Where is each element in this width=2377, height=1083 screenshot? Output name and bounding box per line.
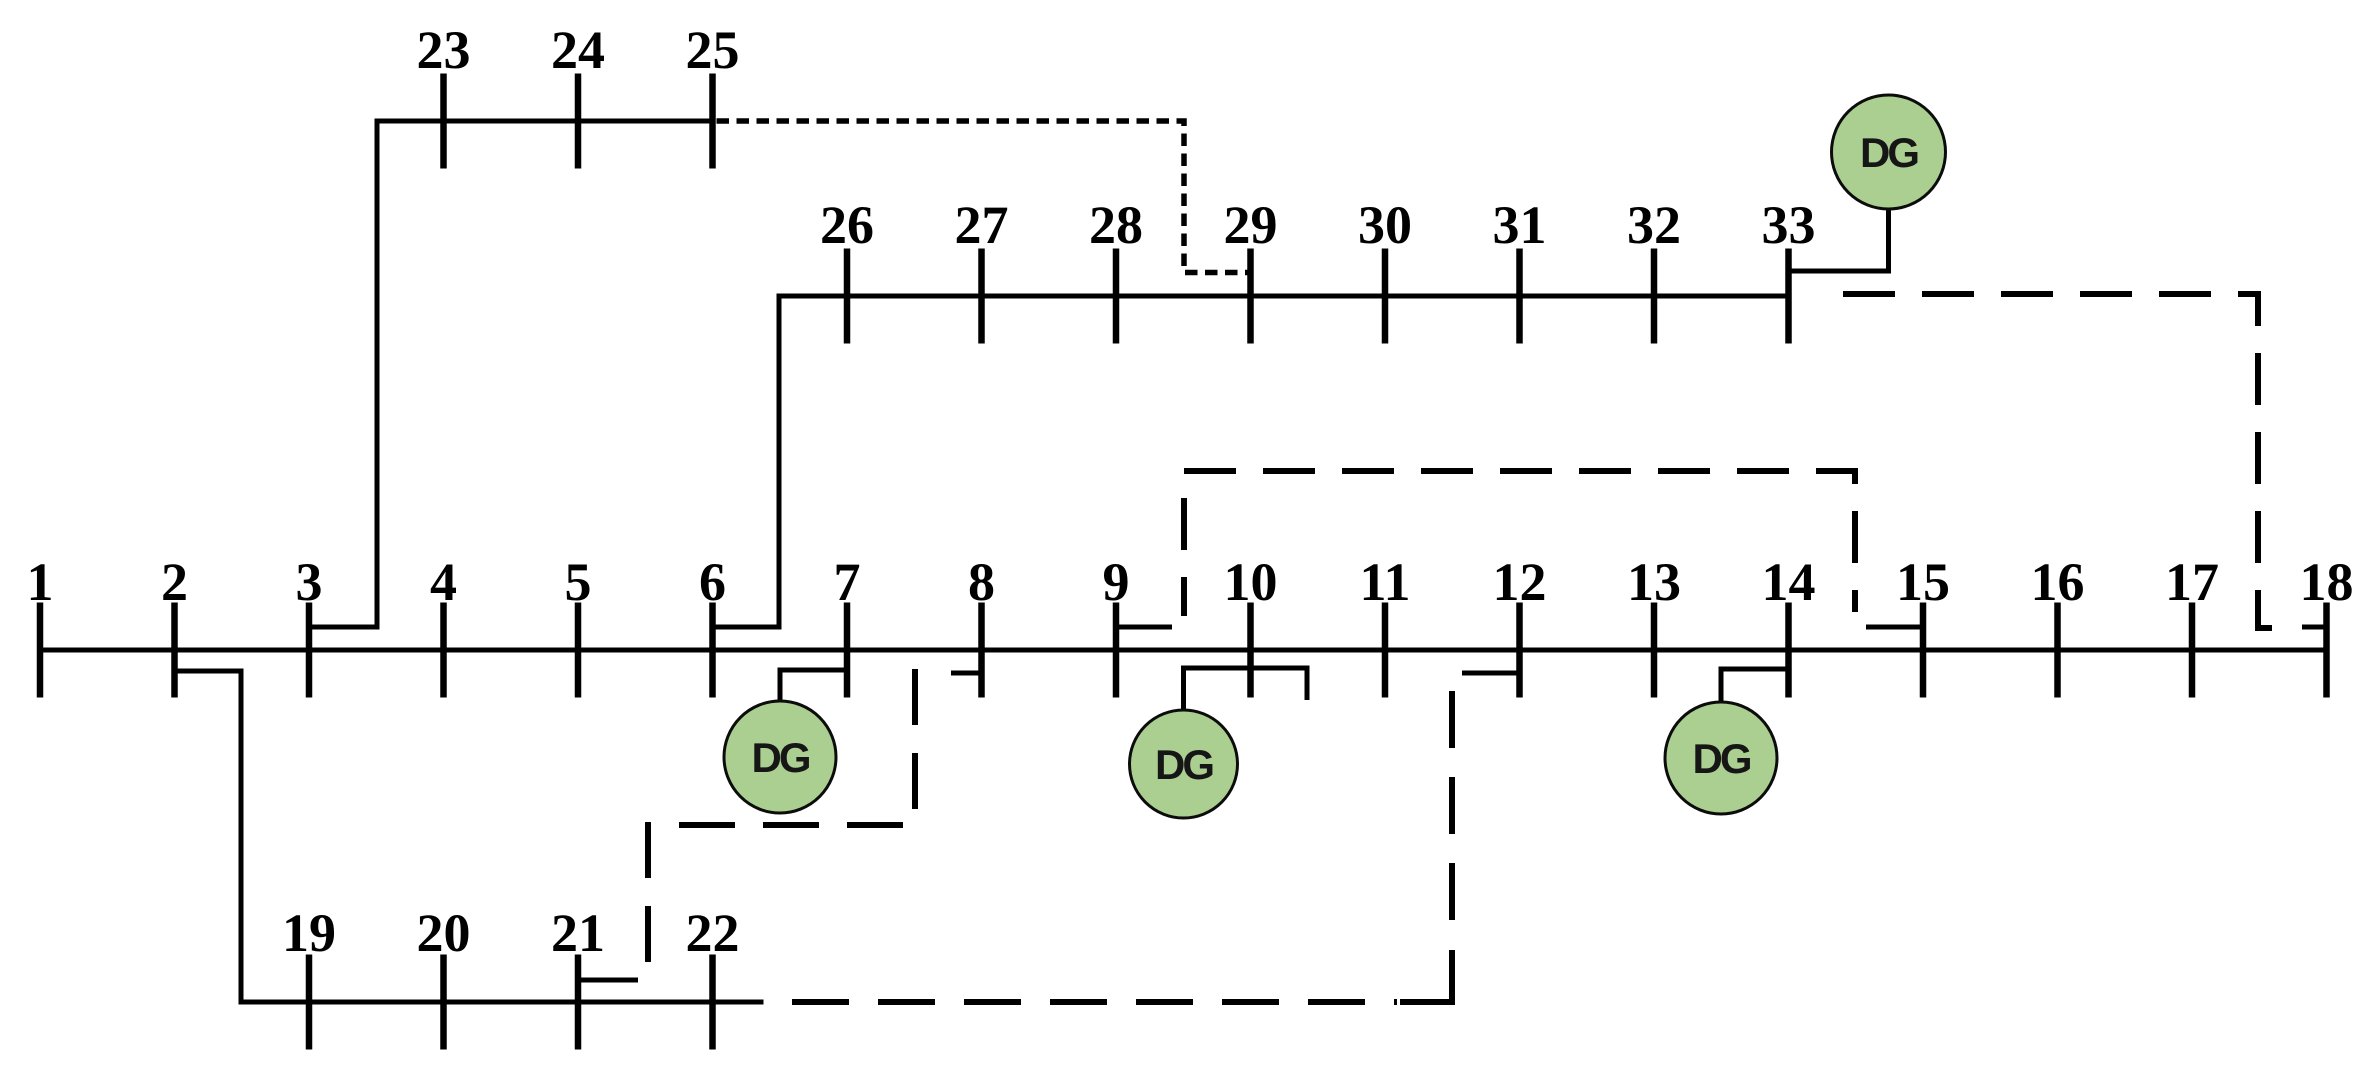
wire: open tie switch 33-18 (dashed)	[1843, 294, 2278, 628]
node bus 14	[1762, 552, 1816, 698]
svg-text:31: 31	[1493, 195, 1547, 255]
node bus 24	[551, 20, 605, 169]
svg-text:27: 27	[955, 195, 1009, 255]
node bus 9	[1103, 552, 1130, 698]
node bus 16	[2031, 552, 2085, 698]
wire: bus 8 stub for tie 8-21	[951, 671, 982, 676]
node bus 19	[282, 903, 336, 1050]
svg-text:7: 7	[834, 552, 861, 612]
node bus 21	[551, 903, 605, 1050]
svg-text:DG: DG	[1860, 129, 1918, 176]
wire: open tie switch 12-22 (dashed horizontal)	[792, 999, 1397, 1005]
wire: bus 18 stub for tie 33-18	[2302, 625, 2327, 630]
svg-text:12: 12	[1493, 552, 1547, 612]
svg-text:16: 16	[2031, 552, 2085, 612]
wire: DG connection at bus 33	[1789, 207, 1889, 271]
node bus 26	[820, 195, 874, 344]
node bus 20	[417, 903, 471, 1050]
node bus 12	[1493, 552, 1547, 698]
wire: open tie switch 9-15 (dashed)	[1184, 471, 1855, 616]
svg-text:11: 11	[1359, 552, 1410, 612]
svg-text:17: 17	[2165, 552, 2219, 612]
node bus 29	[1224, 195, 1278, 344]
svg-text:25: 25	[686, 20, 740, 80]
wire: tie 12-22 corner	[1400, 950, 1452, 1002]
svg-text:24: 24	[551, 20, 605, 80]
node bus 4	[430, 552, 457, 698]
node bus 11	[1359, 552, 1410, 698]
node bus 6	[699, 552, 726, 698]
wire: main feeder bus line 1-18	[37, 648, 2330, 653]
wire: open tie switch 25-29 (dotted)	[717, 121, 1248, 273]
node bus 7	[834, 552, 861, 698]
svg-text:5: 5	[565, 552, 592, 612]
svg-text:20: 20	[417, 903, 471, 963]
node bus 2	[161, 552, 188, 698]
svg-text:DG: DG	[752, 734, 810, 781]
svg-text:28: 28	[1089, 195, 1143, 255]
svg-text:29: 29	[1224, 195, 1278, 255]
svg-text:32: 32	[1627, 195, 1681, 255]
wire: bus 15 stub for tie 9-15	[1866, 625, 1923, 630]
node bus 31	[1493, 195, 1547, 344]
node bus 22	[686, 903, 740, 1050]
wire: bus 21 stub for tie 8-21	[578, 978, 638, 983]
svg-text:13: 13	[1627, 552, 1681, 612]
svg-text:1: 1	[27, 552, 54, 612]
wire: DG connection bar at bus 10	[1184, 668, 1308, 713]
node bus 27	[955, 195, 1009, 344]
svg-text:33: 33	[1762, 195, 1816, 255]
svg-text:4: 4	[430, 552, 457, 612]
wire: DG connection at bus 14	[1721, 669, 1789, 705]
svg-text:30: 30	[1358, 195, 1412, 255]
svg-text:18: 18	[2300, 552, 2354, 612]
node bus 25	[686, 20, 740, 169]
node bus 15	[1896, 552, 1950, 698]
svg-text:14: 14	[1762, 552, 1816, 612]
node bus 17	[2165, 552, 2219, 698]
svg-text:23: 23	[417, 20, 471, 80]
node bus 8	[968, 552, 995, 698]
wire: open tie switch 12-22 (dashed vertical)	[1449, 691, 1455, 948]
DG generator at bus 33	[1832, 95, 1946, 209]
svg-text:21: 21	[551, 903, 605, 963]
node bus 1	[27, 552, 54, 698]
svg-text:DG: DG	[1693, 735, 1751, 782]
node bus 32	[1627, 195, 1681, 344]
DG generator at bus 7	[724, 701, 836, 813]
svg-text:10: 10	[1224, 552, 1278, 612]
svg-text:6: 6	[699, 552, 726, 612]
svg-text:2: 2	[161, 552, 188, 612]
wire: bus 9 stub for tie 9-15	[1116, 625, 1172, 630]
node bus 33	[1762, 195, 1816, 344]
node bus 13	[1627, 552, 1681, 698]
node bus 10	[1224, 552, 1278, 698]
wire: bus 12 stub for tie 12-22	[1462, 671, 1520, 676]
svg-text:DG: DG	[1155, 741, 1213, 788]
node bus 3	[296, 552, 323, 698]
DG generator at bus 14	[1665, 702, 1777, 814]
node bus 28	[1089, 195, 1143, 344]
svg-text:9: 9	[1103, 552, 1130, 612]
svg-text:15: 15	[1896, 552, 1950, 612]
node bus 23	[417, 20, 471, 169]
wire: DG connection at bus 7	[780, 670, 847, 706]
svg-text:22: 22	[686, 903, 740, 963]
DG generator at bus 10	[1130, 710, 1238, 818]
wire: branch from bus 6 up to bus 26	[713, 296, 1789, 627]
node bus 18	[2300, 552, 2354, 698]
node bus 30	[1358, 195, 1412, 344]
wire: branch from bus 3 up to bus 23	[309, 121, 713, 627]
svg-text:8: 8	[968, 552, 995, 612]
wire: branch from bus 2 down to bus 19	[175, 671, 764, 1002]
wire: open tie switch 8-21 (dashed)	[648, 669, 915, 977]
svg-text:3: 3	[296, 552, 323, 612]
svg-text:26: 26	[820, 195, 874, 255]
node bus 5	[565, 552, 592, 698]
svg-text:19: 19	[282, 903, 336, 963]
